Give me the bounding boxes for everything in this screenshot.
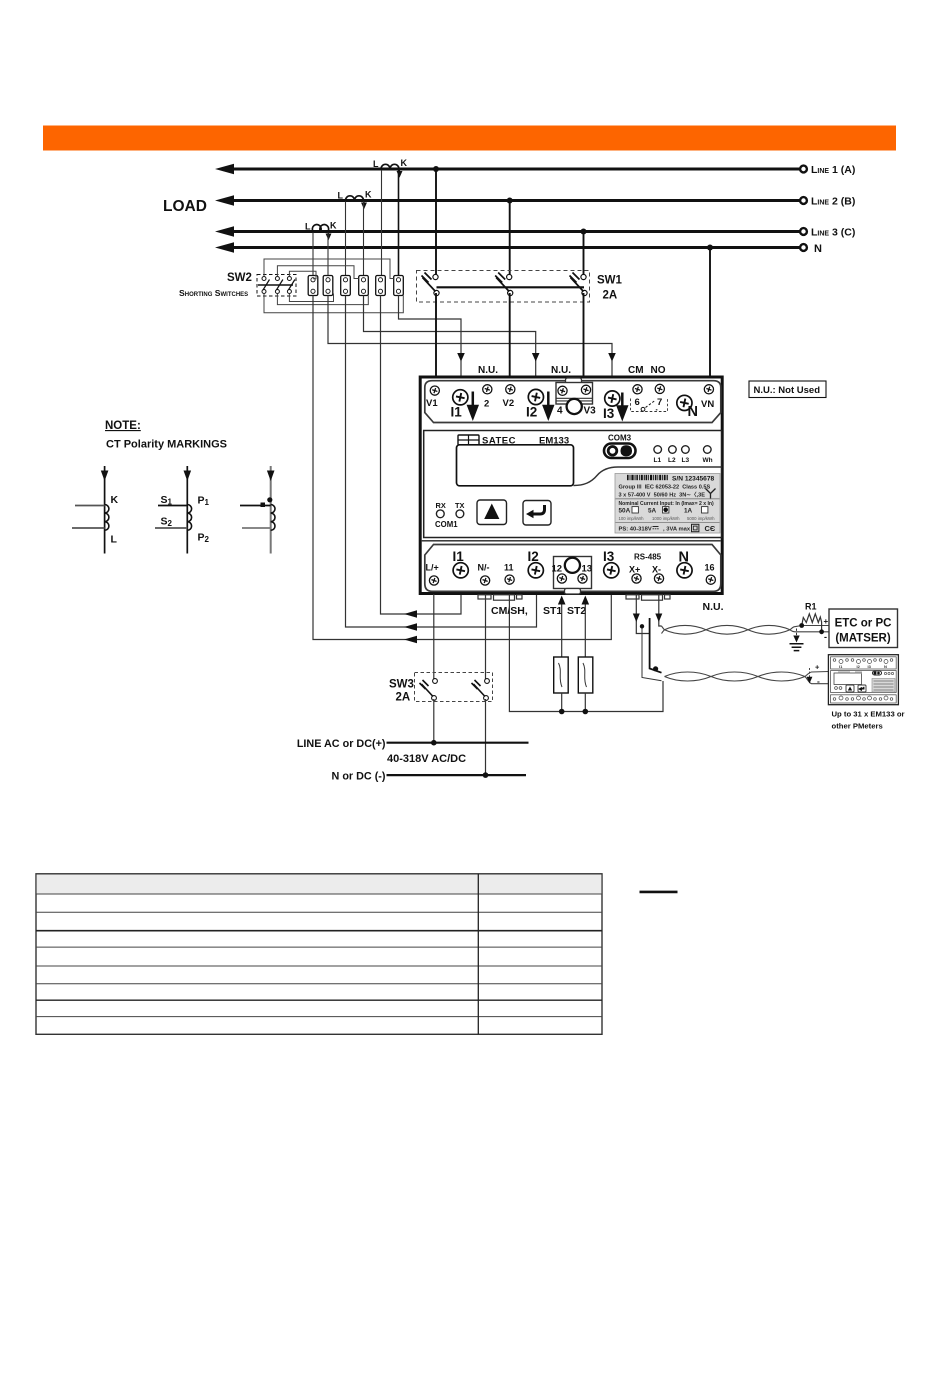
groove line above bottom strip (422, 540, 721, 542)
SATEC logo (458, 435, 516, 447)
switch SW3 dashed enclosure (415, 673, 493, 702)
terminal block TB2 (323, 276, 333, 296)
svg-text:Up to 31 x EM133 or: Up to 31 x EM133 or (832, 710, 905, 719)
svg-text:ETC or PC: ETC or PC (835, 618, 892, 630)
orange header bar (43, 126, 896, 151)
terminal block TB3 (341, 276, 351, 296)
ground symbol shield drain (790, 629, 804, 651)
node junction line1-V1 (433, 166, 439, 172)
svg-text:Nominal Current Input: In (Ima: Nominal Current Input: In (Imax= 2 x In) (619, 501, 715, 507)
svg-text:L1: L1 (654, 457, 662, 464)
label Line 3 (C) (811, 227, 855, 239)
label ST1 (543, 605, 562, 617)
label CM above relay (628, 365, 644, 376)
svg-text:V1: V1 (426, 398, 438, 409)
label rating row1 (619, 485, 711, 491)
svg-text:V3: V3 (584, 406, 597, 417)
label plus at meter2 (815, 663, 820, 672)
svg-text:V2: V2 (503, 398, 515, 409)
svg-text:CM: CM (628, 365, 644, 376)
terminal 16 screw (705, 563, 716, 585)
svg-text:100 imp/kWh: 100 imp/kWh (619, 516, 645, 521)
wire ST1 top with up arrow (558, 596, 566, 658)
CT1 current transformer on line 1 (373, 158, 408, 177)
terminal N/- screw (478, 563, 490, 586)
svg-text:K: K (330, 221, 337, 231)
label 5A checkbox selected (648, 507, 669, 515)
faceplate swoosh (574, 467, 722, 486)
node junction N-VN (707, 245, 713, 251)
node junction SW3-LINE (431, 740, 437, 746)
label Up to 31 x EM133 (832, 710, 905, 731)
svg-text:2: 2 (484, 399, 489, 410)
svg-text:N or DC (-): N or DC (-) (332, 771, 386, 783)
wire line 2 (B) (215, 195, 801, 205)
divider line label2 (616, 522, 720, 524)
terminal block TB4 (359, 276, 369, 296)
shield arrow at meter2 (807, 668, 813, 684)
terminal 7 screw (655, 384, 664, 408)
rating label gray area (615, 474, 720, 534)
fuse-switch SW3 pole 2 (472, 679, 490, 701)
svg-text:4: 4 (557, 406, 563, 417)
svg-text:I3: I3 (603, 549, 615, 564)
svg-text:L: L (305, 222, 311, 232)
terminal 4 block with V3 (556, 378, 596, 417)
wire line 1 (A) (215, 164, 801, 174)
node N terminal (800, 244, 807, 251)
svg-text:6: 6 (635, 397, 640, 408)
svg-text:PS: 40-318V: PS: 40-318V (619, 527, 652, 533)
svg-text:+: + (824, 617, 829, 626)
svg-text:RS-485: RS-485 (634, 553, 662, 562)
meter top terminal strip outline (425, 381, 721, 423)
wire L/+ to SW3 (433, 594, 435, 680)
svg-text:, 3VA max: , 3VA max (663, 527, 691, 533)
barcode (627, 475, 668, 480)
svg-text:RX: RX (436, 501, 446, 510)
svg-text:Line 1 (A): Line 1 (A) (811, 164, 855, 176)
wye symbol (706, 489, 716, 499)
fuse-switch SW1 pole 2 (495, 273, 513, 296)
wire SW1 pole2 to meter V2 (509, 293, 511, 376)
svg-text:N.U.: Not Used: N.U.: Not Used (754, 385, 821, 396)
svg-text:N.U.: N.U. (478, 365, 498, 376)
label 40-318V AC/DC (387, 753, 466, 765)
svg-text:7: 7 (657, 397, 662, 408)
svg-text:NO: NO (651, 365, 666, 376)
svg-text:N.U.: N.U. (551, 365, 571, 376)
label minus at ETC (824, 632, 827, 642)
label minus at meter2 (817, 676, 820, 686)
label plus at ETC (824, 617, 829, 626)
svg-text:I3: I3 (603, 406, 615, 421)
node line2 terminal (800, 197, 807, 204)
svg-text:N: N (884, 664, 887, 669)
wire LINE bus (387, 742, 529, 744)
svg-text:2A: 2A (396, 692, 411, 704)
svg-text:N: N (814, 243, 822, 255)
svg-text:N/-: N/- (478, 563, 490, 573)
svg-text:+: + (815, 663, 820, 672)
svg-text:SW1: SW1 (597, 275, 623, 287)
svg-text:3 x 57-400 V 50/60 Hz 3N∼〈,3: 3 x 57-400 V 50/60 Hz 3N∼〈,3E (619, 490, 706, 498)
twisted pair to ETC (upper) (662, 625, 830, 634)
svg-text:-: - (824, 632, 827, 642)
svg-text:Line 3 (C): Line 3 (C) (811, 227, 855, 239)
CT polarity symbol 3 (dot convention) (240, 466, 275, 554)
wire V3 from line3 to SW1 (583, 232, 585, 278)
svg-text:K: K (365, 190, 372, 200)
label NOTE: (105, 420, 141, 432)
relay contact 6-7 dashed (631, 399, 668, 412)
svg-text:-: - (817, 676, 820, 686)
svg-text:I1: I1 (451, 405, 463, 420)
label SW3 (389, 679, 414, 691)
node junction daisy A (653, 666, 658, 671)
wire SW1 pole1 to meter V1 (435, 293, 437, 376)
terminal I1 screw with arrow (451, 390, 478, 420)
label box N.U.: Not Used (749, 381, 826, 398)
wire CT3 K lead down (327, 233, 329, 277)
wire SW2 gang bar (258, 284, 293, 286)
label SW2 (227, 272, 252, 284)
svg-text:1000 imp/kWh: 1000 imp/kWh (652, 516, 680, 521)
label RS-485 (634, 553, 662, 562)
wire SW2 pole1 bottom to TB6 bottom (264, 294, 403, 313)
divider line label (616, 498, 720, 500)
wire I1 return to CT1 L (381, 296, 462, 618)
wire daisy-chain tap A (650, 618, 662, 673)
meter 2 (mini EM133) (828, 655, 898, 705)
svg-text:X-: X- (652, 565, 661, 575)
node junction R1 bottom wire (819, 629, 824, 634)
svg-text:LOAD: LOAD (163, 198, 207, 215)
svg-text:1A: 1A (684, 508, 693, 515)
CT2 current transformer on line 2 (338, 190, 373, 209)
button up-arrow (477, 500, 507, 525)
svg-text:N.U.: N.U. (703, 601, 724, 613)
wire SW1 gang bar (437, 286, 585, 288)
label Shorting Switches (179, 288, 248, 298)
node junction ST1-bus (559, 709, 565, 715)
label CM/SH (491, 605, 528, 617)
switch SW2 pole 3 (287, 277, 295, 294)
svg-text:13: 13 (582, 564, 593, 575)
svg-text:L: L (338, 191, 344, 201)
svg-text:L3: L3 (682, 457, 690, 464)
wire SW3 pole2 to N bus (485, 699, 487, 775)
svg-text:I2: I2 (528, 549, 539, 564)
wire line 3 (C) (215, 226, 801, 236)
svg-text:L: L (111, 534, 118, 546)
label N or DC (-) (332, 771, 386, 783)
label SW1 2A (603, 290, 618, 302)
terminal V2 screw (503, 385, 515, 409)
meter bottom terminal strip outline (425, 545, 721, 592)
svg-text:COM3: COM3 (608, 434, 632, 443)
wire I3 return to CT3 L (313, 296, 611, 644)
label NO above relay (651, 365, 666, 376)
wire CT2 K lead down (363, 202, 365, 277)
label ST2 (567, 605, 586, 617)
wire V1 from line1 to SW1 (435, 169, 437, 277)
wire I2 return to CT2 L (346, 296, 537, 631)
svg-text:(MATSER): (MATSER) (835, 633, 891, 645)
svg-text:12: 12 (552, 564, 563, 575)
DIN clip tabs left (478, 595, 522, 600)
label N.U. above terminal 4 (551, 365, 571, 376)
terminal V1 screw (426, 386, 439, 409)
label CT Polarity MARKINGS (106, 439, 227, 451)
wire N/- to SW3 (485, 594, 487, 680)
svg-text:40-318V AC/DC: 40-318V AC/DC (387, 753, 466, 765)
svg-text:LINE AC or DC(+): LINE AC or DC(+) (297, 738, 386, 750)
twisted pair to other meters (lower) (665, 672, 829, 684)
svg-text:K: K (401, 158, 408, 168)
button enter (523, 501, 551, 526)
wire CT1 K lead down (398, 170, 400, 276)
CT3 current transformer on line 3 (305, 221, 337, 240)
label Line 2 (B) (811, 196, 855, 208)
svg-text:ST1: ST1 (543, 605, 562, 617)
node junction ST2-bus (583, 709, 589, 715)
label nominal current row (619, 501, 715, 507)
label N.U. below 16 (703, 601, 724, 613)
wire SW2 pole3 top to TB1 (289, 271, 316, 279)
label LOAD (163, 198, 207, 215)
solid-state relay ST1 (554, 657, 569, 693)
LED L3 (682, 446, 690, 464)
terminal I2 screw with arrow (526, 389, 553, 419)
label imp-kWh row (619, 516, 716, 521)
wire ST1 bottom (561, 693, 563, 712)
LED L2 (668, 446, 676, 464)
terminal X+ screw (629, 565, 641, 584)
wire daisy-chain tap B (642, 627, 662, 681)
label N.U. above terminal 2 (478, 365, 498, 376)
label 50A checkbox (619, 507, 639, 515)
wire ST2 top with up arrow (582, 596, 590, 658)
wire neutral N (215, 242, 801, 252)
wire X- down with arrow (655, 594, 662, 626)
svg-text:S/N 12345678: S/N 12345678 (672, 476, 714, 483)
wire X+ down with arrow (633, 594, 650, 634)
switch SW2 pole 2 (275, 277, 283, 294)
svg-text:TX: TX (455, 501, 465, 510)
label Line 1 (A) (811, 164, 855, 176)
svg-text:16: 16 (705, 563, 715, 573)
wire SW3 pole1 to LINE bus (433, 699, 435, 743)
terminal 6 screw (633, 385, 642, 408)
svg-text:Shorting Switches: Shorting Switches (179, 288, 248, 298)
node junction daisy B (640, 624, 644, 628)
label EM133 (539, 436, 569, 447)
svg-text:L/+: L/+ (426, 563, 439, 573)
terminal block TB6 (394, 276, 404, 296)
wire SW2 pole2 bottom to TB4 bottom (277, 294, 368, 305)
terminal X- screw (652, 565, 664, 584)
DIN clip tabs right (626, 595, 670, 600)
wire SW2 pole1 top to TB6 (264, 259, 394, 279)
COM1 RX LED (436, 501, 446, 518)
label S/N 12345678 (672, 476, 714, 483)
node line1 terminal (800, 166, 807, 173)
box ETC or PC (MATSER) (829, 609, 898, 648)
svg-text:Group III IEC 62053-22 Class: Group III IEC 62053-22 Class 0.5S (619, 485, 711, 491)
label SW3 2A (396, 692, 411, 704)
resistor R1 (802, 602, 822, 632)
wire CT2 L lead down (345, 202, 347, 277)
terminal I3 screw with arrow (603, 391, 627, 421)
svg-text:5000 imp/kWh: 5000 imp/kWh (687, 516, 715, 521)
label SW1 (597, 275, 623, 287)
fuse-switch SW3 pole 1 (420, 679, 438, 701)
COM1 TX LED (455, 501, 465, 518)
meter EM133 outer case (420, 377, 722, 594)
terminal block TB1 (308, 276, 318, 296)
node junction R1 top wire (799, 623, 804, 628)
fuse-switch SW1 pole 1 (422, 273, 440, 296)
label PS row (619, 524, 716, 533)
svg-text:L: L (373, 159, 379, 169)
wire SW2 pole3 bottom to TB2 (289, 294, 333, 302)
svg-text:COM1: COM1 (435, 520, 458, 529)
svg-text:11: 11 (504, 563, 514, 573)
LED L1 (654, 446, 662, 464)
LED Wh (703, 446, 713, 464)
label rating row2 (619, 490, 706, 498)
terminal L/+ screw (426, 563, 439, 586)
wire CT3 K to meter I3 input (328, 296, 616, 377)
svg-text:VN: VN (701, 399, 714, 410)
CT polarity symbol 2 (S1 S2 P1 P2) (155, 466, 210, 554)
terminal N screw (677, 395, 698, 420)
svg-text:R1: R1 (805, 602, 817, 612)
svg-text:Wh: Wh (703, 457, 713, 464)
terminal I3 bottom screw (603, 549, 619, 578)
node junction line3-V3 (581, 229, 587, 235)
LCD display (457, 445, 574, 486)
svg-text:CЄ: CЄ (705, 524, 716, 533)
terminal 2 screw (483, 385, 492, 410)
switch SW2 pole 1 (262, 277, 270, 294)
svg-text:I2: I2 (526, 405, 537, 420)
wire N bus (387, 774, 527, 776)
wire CT3 L lead down (312, 233, 314, 277)
meter middle panel (424, 431, 722, 538)
terminal 11 screw (504, 563, 514, 585)
wire SW1 pole3 to meter V3 (583, 293, 585, 376)
wire CT1 L lead down (381, 170, 383, 276)
terminal I1 bottom screw (453, 549, 469, 578)
switch SW2 dashed enclosure (257, 275, 296, 297)
label LINE AC or DC(+) (297, 738, 386, 750)
svg-text:ST2: ST2 (567, 605, 586, 617)
table (36, 874, 602, 1035)
horizontal mark right of table (640, 891, 678, 894)
svg-text:I1: I1 (453, 549, 465, 564)
node junction SW3-Nbus (483, 772, 489, 778)
svg-text:5A: 5A (648, 508, 657, 515)
label COM1 (435, 520, 458, 529)
wire VN from N line to meter VN (709, 248, 711, 377)
node junction line2-V2 (507, 198, 513, 204)
svg-text:N: N (688, 404, 698, 420)
label N (814, 243, 822, 255)
wire terminal 11 to ST bus (509, 594, 663, 712)
fuse-switch SW1 pole 3 (570, 273, 588, 296)
wire ST2 bottom (584, 693, 586, 712)
COM3 connector (604, 434, 636, 459)
svg-text:L2: L2 (668, 457, 676, 464)
svg-text:X+: X+ (629, 565, 640, 575)
svg-text:NOTE:: NOTE: (105, 420, 141, 432)
node line3 terminal (800, 228, 807, 235)
svg-text:50A: 50A (619, 508, 631, 515)
terminal VN screw (701, 385, 714, 410)
svg-text:Line 2 (B): Line 2 (B) (811, 196, 855, 208)
CT polarity symbol 1 (K/L) (72, 466, 119, 554)
svg-text:2A: 2A (603, 290, 618, 302)
wire CT1 K to meter I1 input (399, 296, 465, 377)
solid-state relay ST2 (578, 657, 593, 693)
wire SW2 pole2 top to TB4 (277, 266, 358, 279)
svg-text:K: K (111, 494, 119, 506)
terminal I2 bottom screw (528, 549, 544, 578)
wire CT2 K to meter I2 input (364, 296, 540, 377)
terminal block TB5 (376, 276, 386, 296)
svg-text:other PMeters: other PMeters (832, 722, 883, 731)
svg-text:SW3: SW3 (389, 679, 414, 691)
terminal N bottom screw (677, 550, 692, 578)
wire V2 from line2 to SW1 (509, 201, 511, 278)
svg-text:SW2: SW2 (227, 272, 252, 284)
terminal 12-13 block (552, 557, 593, 595)
switch SW1 dashed enclosure (417, 271, 590, 303)
svg-text:CT Polarity MARKINGS: CT Polarity MARKINGS (106, 439, 227, 451)
label 1A checkbox (684, 507, 708, 515)
